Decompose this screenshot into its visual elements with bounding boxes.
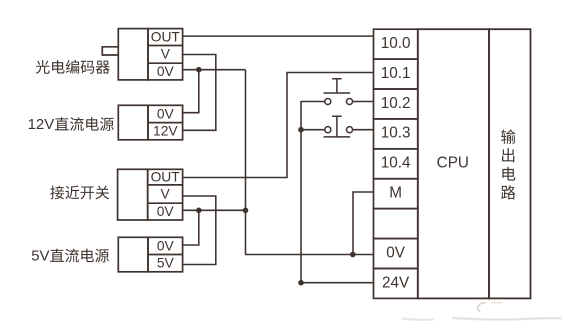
svg-text:0V: 0V: [157, 204, 175, 219]
label 12V直流电源 (12V DC supply): [28, 116, 114, 133]
proximity switch block with terminals OUT / V / 0V: [118, 169, 183, 220]
junction proximity 0V line / 0V bus: [243, 208, 249, 214]
wire CPU M terminal to 0V line: [353, 192, 374, 255]
wire 0V bus down to CPU 0V terminal: [246, 70, 374, 255]
wire encoder 0V terminal to 0V bus corner: [183, 69, 246, 71]
CPU terminal 10.2: [374, 89, 418, 119]
wire pushbutton SB2 right contact to CPU input 10.3: [352, 129, 373, 131]
label 5V直流电源 (5V DC supply): [31, 248, 109, 265]
svg-text:V: V: [161, 186, 171, 201]
wire pushbutton SB1 right contact to CPU input 10.2: [352, 101, 373, 103]
svg-text:12V: 12V: [153, 124, 178, 139]
12V DC power supply block with terminals 0V / 12V: [118, 105, 182, 140]
wire 12V supply 12V terminal to encoder V terminal: [183, 55, 216, 131]
junction button common / 24V wire corner: [298, 280, 304, 286]
svg-text:V: V: [161, 47, 171, 62]
CPU terminal 10.4: [374, 149, 418, 179]
svg-text:10.4: 10.4: [381, 155, 411, 172]
faint erased watermark smudge: [402, 303, 562, 320]
CPU terminal 24V: [374, 268, 418, 298]
svg-text:24V: 24V: [382, 274, 410, 291]
junction M wire / 0V wire: [350, 252, 356, 258]
wire 5V supply 0V terminal up to junction on proximity 0V line: [183, 210, 199, 245]
svg-text:M: M: [389, 185, 402, 202]
svg-text:5V: 5V: [31, 248, 49, 265]
CPU terminal blank: [374, 209, 418, 239]
pushbutton SB1 (normally open, to input 10.2): [324, 79, 353, 105]
svg-text:10.3: 10.3: [381, 125, 411, 142]
svg-text:12V: 12V: [28, 116, 55, 133]
svg-text:10.2: 10.2: [381, 95, 411, 112]
wire proximity switch OUT to CPU input 10.1: [183, 73, 374, 178]
svg-text:CPU: CPU: [437, 155, 469, 172]
wire pushbutton SB2 left contact from junction: [301, 129, 325, 131]
wire 12V supply 0V terminal up to junction on encoder 0V line: [183, 70, 199, 113]
junction proximity 0V / 5V supply 0V: [196, 208, 202, 214]
wire pushbutton SB1 left contact to common branch: [301, 102, 325, 130]
junction button common / SB2 left: [298, 127, 304, 133]
pushbutton SB2 (normally open, to input 10.3): [324, 116, 353, 137]
svg-text:5V: 5V: [157, 256, 175, 271]
svg-text:10.1: 10.1: [381, 65, 411, 82]
CPU terminal 10.0: [374, 29, 418, 59]
label 接近开关 (proximity switch): [50, 186, 109, 200]
junction encoder 0V / 12V supply 0V: [196, 67, 202, 73]
svg-text:0V: 0V: [386, 244, 406, 261]
svg-text:0V: 0V: [157, 64, 175, 79]
wire button common down to CPU 24V terminal: [301, 130, 374, 283]
photoelectric encoder block with terminals OUT / V / 0V: [102, 29, 182, 80]
output circuit box 输出电路: [489, 29, 531, 298]
svg-text:OUT: OUT: [151, 169, 181, 184]
svg-text:0V: 0V: [157, 106, 175, 121]
svg-text:0V: 0V: [157, 238, 175, 253]
CPU terminal 0V: [374, 239, 418, 269]
5V DC power supply block with terminals 0V / 5V: [118, 237, 182, 271]
CPU terminal 10.3: [374, 119, 418, 149]
svg-text:10.0: 10.0: [381, 35, 411, 52]
wire encoder OUT to CPU input 10.0: [183, 35, 374, 37]
wire proximity switch 0V terminal to 0V bus: [183, 209, 246, 211]
label 光电编码器 (photoelectric encoder): [36, 60, 110, 74]
CPU terminal M: [374, 179, 418, 209]
svg-text:OUT: OUT: [151, 29, 181, 44]
CPU box U1: [418, 29, 489, 298]
CPU terminal 10.1: [374, 59, 418, 89]
wire 5V supply 5V terminal to proximity switch V terminal: [183, 196, 216, 265]
